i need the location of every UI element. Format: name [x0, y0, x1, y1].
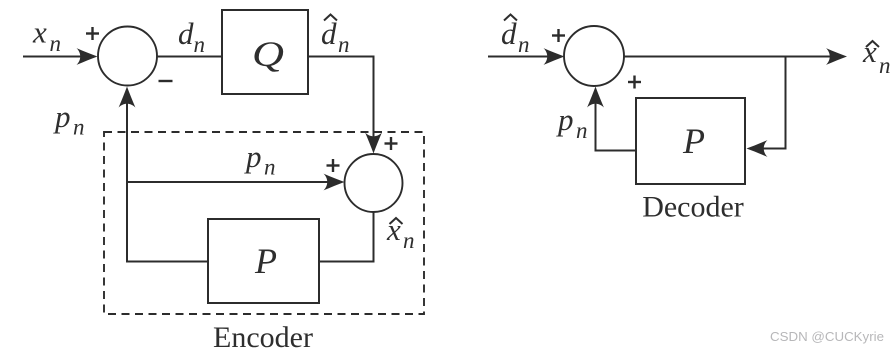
- wire: S1 output to quantizer Q: [157, 56, 222, 58]
- label d-hat_n (encoder): [321, 15, 350, 58]
- svg-text:Encoder: Encoder: [213, 321, 313, 353]
- summing junction S2: [345, 154, 403, 212]
- arrowhead into S2 top: [365, 133, 382, 154]
- wire: decoder input into summer S3: [488, 56, 555, 58]
- wire: S3 output to x-hat_n: [624, 56, 837, 58]
- plus sign at S2 left input: [327, 159, 340, 172]
- svg-text:p: p: [244, 139, 262, 174]
- wire: S2 bottom down and to P output side: [319, 212, 374, 262]
- svg-text:n: n: [264, 155, 276, 180]
- label d_n: [178, 16, 205, 57]
- svg-text:d: d: [178, 16, 194, 51]
- wire: output tap down into predictor P (decoder): [757, 57, 786, 149]
- arrowhead into S3 bottom: [587, 87, 604, 108]
- svg-text:x: x: [862, 34, 877, 69]
- svg-text:n: n: [576, 118, 588, 143]
- plus sign at S1 input: [86, 27, 99, 40]
- svg-text:p: p: [53, 99, 71, 134]
- label x-hat_n (decoder output): [862, 34, 891, 78]
- svg-text:n: n: [403, 228, 415, 253]
- plus sign at S2 top input: [385, 137, 398, 150]
- arrowhead into S1 bottom: [119, 87, 136, 108]
- arrowhead at decoder output: [826, 48, 847, 65]
- label p_n (feedback, outside dashed box): [53, 99, 85, 140]
- wire: P output up into S3 bottom: [596, 97, 637, 151]
- svg-text:x: x: [386, 212, 401, 247]
- label x_n: [32, 15, 61, 57]
- plus sign at S3 input: [552, 29, 565, 42]
- arrowhead into S2 left: [324, 174, 345, 191]
- label p_n (decoder): [556, 102, 588, 143]
- summing junction S3: [564, 26, 624, 86]
- arrowhead into S3 left: [544, 48, 565, 65]
- summing junction S1: [98, 27, 157, 86]
- wire: feedback up into S1 bottom: [126, 97, 128, 262]
- svg-text:n: n: [73, 115, 85, 140]
- svg-text:n: n: [518, 32, 530, 57]
- plus sign at S3 bottom input: [628, 76, 641, 89]
- svg-text:p: p: [556, 102, 574, 137]
- block P: predictor (decoder): [636, 98, 745, 184]
- svg-text:Decoder: Decoder: [642, 191, 744, 224]
- arrowhead into P right side: [747, 140, 768, 157]
- wire: Q output down to summer S2: [308, 57, 374, 143]
- svg-text:n: n: [338, 32, 350, 57]
- svg-text:P: P: [254, 241, 277, 281]
- svg-text:n: n: [879, 53, 891, 78]
- label x-hat_n (encoder output): [386, 212, 415, 253]
- svg-text:x: x: [32, 15, 47, 50]
- svg-text:n: n: [194, 32, 206, 57]
- block P: predictor (encoder): [208, 219, 319, 303]
- svg-text:n: n: [50, 31, 62, 56]
- svg-text:CSDN @CUCKyrie: CSDN @CUCKyrie: [770, 329, 884, 344]
- svg-text:Q: Q: [252, 34, 284, 74]
- wire: encoder input x_n into summer S1: [23, 56, 88, 58]
- label d-hat_n (decoder input): [501, 15, 530, 58]
- svg-text:d: d: [501, 16, 517, 51]
- arrowhead into summer S1: [77, 48, 98, 65]
- minus sign at S1 feedback input: [159, 80, 173, 82]
- wire: p_n arrow into S2 left: [127, 181, 335, 183]
- wire: bottom run to predictor P input: [126, 261, 208, 263]
- svg-text:P: P: [682, 121, 705, 161]
- svg-text:d: d: [321, 16, 337, 51]
- block Q: quantizer: [222, 10, 308, 94]
- dashed encoder boundary box: [104, 132, 424, 314]
- label p_n (on arrow into S2): [244, 139, 276, 180]
